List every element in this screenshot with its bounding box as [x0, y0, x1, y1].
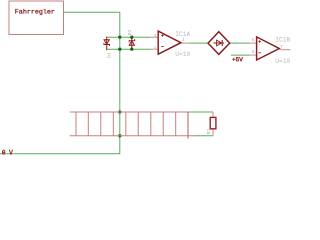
svg-text:2: 2 — [154, 46, 157, 52]
svg-text:1: 1 — [182, 37, 185, 43]
svg-text:Fahrregler: Fahrregler — [15, 8, 55, 16]
svg-text:5: 5 — [252, 37, 255, 43]
svg-text:D1: D1 — [106, 52, 112, 58]
svg-text:IC1B: IC1B — [275, 36, 290, 43]
svg-text:D2: D2 — [127, 29, 133, 35]
svg-text:U=10: U=10 — [275, 58, 290, 65]
svg-text:3: 3 — [154, 33, 157, 39]
svg-text:IC1A: IC1A — [175, 31, 190, 38]
svg-text:R1: R1 — [206, 129, 212, 135]
svg-text:6: 6 — [252, 49, 255, 55]
svg-text:+5V: +5V — [232, 56, 243, 63]
svg-text:7: 7 — [280, 44, 283, 50]
svg-text:U=10: U=10 — [175, 51, 190, 58]
svg-text:0 V: 0 V — [2, 149, 13, 156]
